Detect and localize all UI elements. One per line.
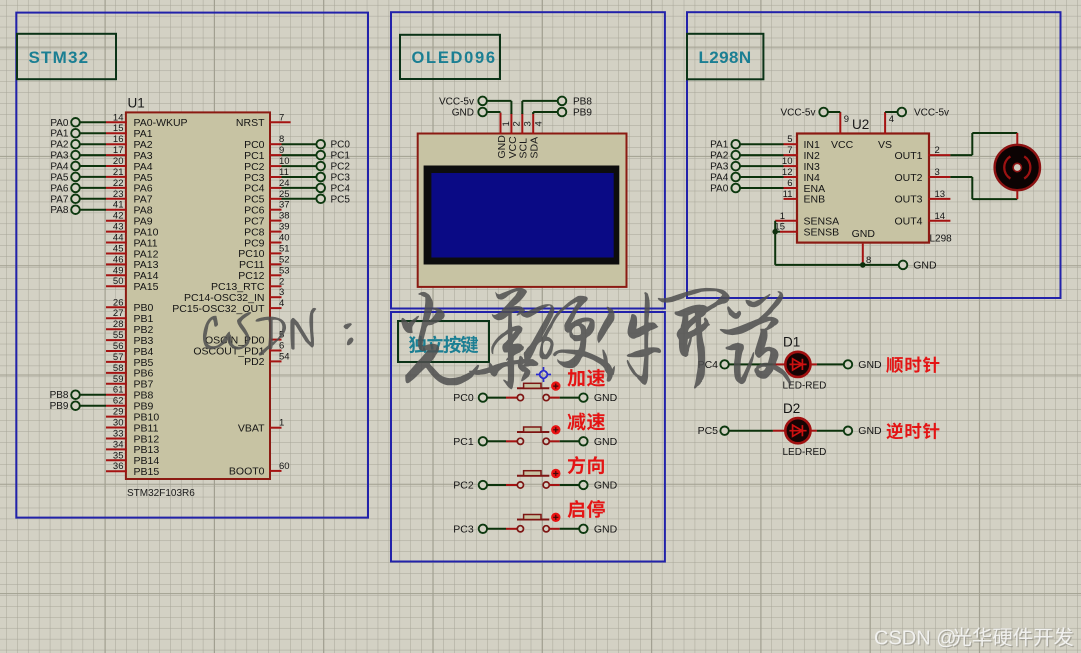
svg-text:1: 1 [780, 211, 785, 222]
svg-text:59: 59 [113, 374, 124, 385]
svg-text:23: 23 [113, 189, 124, 200]
svg-text:PA1: PA1 [710, 140, 729, 151]
svg-text:PB8: PB8 [50, 390, 69, 401]
svg-text:2: 2 [279, 276, 284, 287]
svg-text:34: 34 [113, 439, 124, 450]
svg-text:56: 56 [113, 341, 124, 352]
svg-text:PA15: PA15 [134, 281, 159, 293]
svg-text:14: 14 [935, 211, 946, 222]
svg-text:45: 45 [113, 244, 124, 255]
svg-text:20: 20 [113, 156, 124, 167]
svg-text:PA3: PA3 [50, 151, 69, 162]
svg-text:57: 57 [113, 352, 124, 363]
svg-text:55: 55 [113, 330, 124, 341]
svg-text:46: 46 [113, 254, 124, 265]
svg-text:13: 13 [935, 189, 946, 200]
svg-text:26: 26 [113, 297, 124, 308]
svg-text:VCC-5v: VCC-5v [914, 108, 949, 119]
svg-text:62: 62 [113, 396, 124, 407]
svg-text:3: 3 [523, 121, 534, 126]
svg-text:PC0: PC0 [331, 140, 351, 151]
svg-text:L298N: L298N [699, 48, 752, 67]
svg-text:D2: D2 [783, 401, 800, 416]
svg-text:PA7: PA7 [50, 194, 69, 205]
svg-text:GND: GND [594, 392, 618, 404]
svg-text:PC2: PC2 [331, 162, 351, 173]
svg-text:58: 58 [113, 363, 124, 374]
svg-text:30: 30 [113, 418, 124, 429]
svg-text:PA6: PA6 [50, 183, 69, 194]
svg-text:PA3: PA3 [710, 162, 729, 173]
svg-text:PD2: PD2 [244, 356, 265, 368]
svg-text:NRST: NRST [236, 117, 265, 129]
svg-text:GND: GND [913, 259, 937, 271]
svg-text:LED-RED: LED-RED [783, 447, 827, 458]
svg-text:PB8: PB8 [573, 96, 592, 107]
svg-text:41: 41 [113, 200, 124, 211]
svg-text:53: 53 [279, 265, 290, 276]
svg-text:GND: GND [594, 436, 618, 448]
svg-text:1: 1 [501, 121, 512, 126]
svg-text:12: 12 [782, 167, 793, 178]
svg-text:VCC: VCC [831, 139, 854, 151]
svg-text:PC1: PC1 [453, 436, 474, 448]
svg-text:51: 51 [279, 243, 290, 254]
svg-text:3: 3 [935, 167, 940, 178]
svg-text:PB9: PB9 [50, 401, 69, 412]
svg-text:14: 14 [113, 112, 124, 123]
svg-text:CSDN @: CSDN @ [874, 628, 957, 650]
svg-text:SDA: SDA [529, 137, 541, 159]
svg-text:OUT3: OUT3 [894, 194, 922, 206]
svg-text:50: 50 [113, 276, 124, 287]
svg-text:37: 37 [279, 200, 290, 211]
svg-text:PA4: PA4 [50, 162, 69, 173]
svg-text:PC0: PC0 [453, 392, 474, 404]
svg-text:38: 38 [279, 211, 290, 222]
svg-text:22: 22 [113, 178, 124, 189]
svg-text:PB15: PB15 [134, 466, 160, 478]
svg-text:36: 36 [113, 461, 124, 472]
svg-text:PA8: PA8 [50, 205, 69, 216]
svg-text:PC2: PC2 [453, 480, 474, 492]
svg-text:OUT2: OUT2 [894, 172, 922, 184]
svg-text:39: 39 [279, 222, 290, 233]
svg-text:PC5: PC5 [698, 425, 719, 437]
svg-text:GND: GND [452, 108, 474, 119]
svg-text:16: 16 [113, 134, 124, 145]
svg-text:2: 2 [512, 121, 523, 126]
svg-text:VCC-5v: VCC-5v [439, 96, 474, 107]
svg-text:4: 4 [279, 298, 284, 309]
svg-text:42: 42 [113, 211, 124, 222]
svg-text:8: 8 [866, 255, 871, 266]
svg-text:11: 11 [783, 189, 793, 200]
svg-text:1: 1 [279, 418, 284, 429]
svg-text:VS: VS [878, 139, 892, 151]
svg-text:VBAT: VBAT [238, 423, 265, 435]
svg-text:PC4: PC4 [331, 183, 351, 194]
svg-text:9: 9 [844, 114, 849, 125]
svg-text:5: 5 [787, 134, 792, 145]
svg-text:GND: GND [852, 228, 876, 240]
svg-text:35: 35 [113, 450, 124, 461]
svg-text:6: 6 [279, 341, 284, 352]
svg-text:4: 4 [534, 121, 545, 126]
svg-text:43: 43 [113, 222, 124, 233]
svg-text:GND: GND [858, 359, 882, 371]
svg-text:15: 15 [113, 123, 124, 134]
svg-text:PC1: PC1 [331, 151, 351, 162]
svg-text:D1: D1 [783, 335, 800, 350]
svg-text:7: 7 [787, 145, 792, 156]
svg-text:PA1: PA1 [50, 129, 69, 140]
svg-text:PA4: PA4 [710, 173, 729, 184]
svg-text:40: 40 [279, 233, 290, 244]
svg-text:44: 44 [113, 233, 124, 244]
svg-text:PA0: PA0 [710, 184, 729, 195]
svg-text:PC3: PC3 [453, 523, 474, 535]
svg-text:OUT1: OUT1 [894, 150, 922, 162]
svg-text:GND: GND [594, 523, 618, 535]
svg-text:OUT4: OUT4 [894, 216, 922, 228]
svg-text:17: 17 [113, 145, 124, 156]
svg-text:PC5: PC5 [331, 194, 351, 205]
svg-text:PB9: PB9 [573, 108, 592, 119]
svg-text:PA0: PA0 [50, 118, 69, 129]
svg-text:OLED096: OLED096 [412, 49, 497, 67]
svg-text:21: 21 [113, 167, 124, 178]
svg-text:BOOT0: BOOT0 [229, 466, 265, 478]
svg-text:29: 29 [113, 407, 124, 418]
svg-text:PA2: PA2 [50, 140, 69, 151]
svg-text:3: 3 [279, 287, 284, 298]
svg-text:STM32: STM32 [29, 48, 90, 67]
svg-text:GND: GND [594, 480, 618, 492]
svg-text:PC15-OSC32_OUT: PC15-OSC32_OUT [172, 303, 265, 315]
svg-text:10: 10 [782, 156, 793, 167]
svg-text:ENB: ENB [804, 194, 826, 206]
svg-text:49: 49 [113, 265, 124, 276]
svg-text:27: 27 [113, 308, 124, 319]
svg-text:VCC-5v: VCC-5v [780, 108, 815, 119]
svg-text:PA2: PA2 [710, 151, 729, 162]
svg-text:GND: GND [858, 425, 882, 437]
svg-text:PA5: PA5 [50, 172, 69, 183]
svg-text:2: 2 [935, 145, 940, 156]
svg-text:4: 4 [889, 114, 894, 125]
svg-text:54: 54 [279, 351, 290, 362]
svg-text:60: 60 [279, 461, 290, 472]
svg-text:6: 6 [787, 178, 792, 189]
svg-text:SENSB: SENSB [804, 227, 840, 239]
svg-text:7: 7 [279, 112, 284, 123]
svg-text:U2: U2 [852, 117, 869, 132]
svg-text:U1: U1 [128, 96, 145, 111]
svg-text:28: 28 [113, 319, 124, 330]
svg-text:33: 33 [113, 429, 124, 440]
svg-text:52: 52 [279, 254, 290, 265]
svg-text:61: 61 [113, 385, 124, 396]
svg-text:L298: L298 [930, 234, 953, 245]
svg-text:STM32F103R6: STM32F103R6 [127, 488, 195, 499]
svg-text:PC3: PC3 [331, 173, 351, 184]
